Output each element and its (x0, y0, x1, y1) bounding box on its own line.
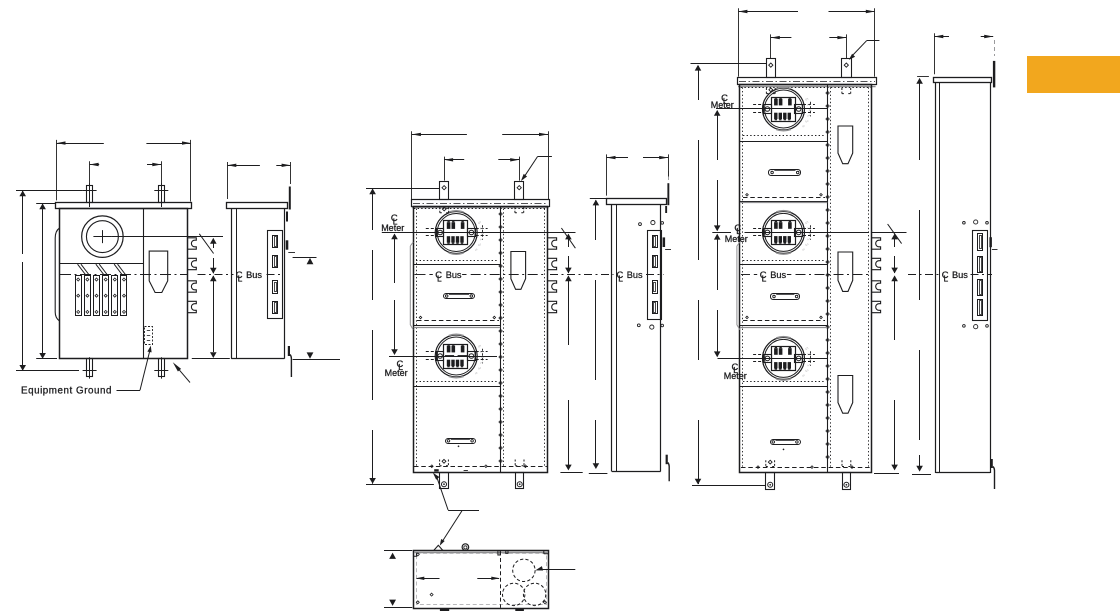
fig5 meter socket 3 (753, 337, 815, 380)
fig2 left wall (double) (232, 209, 237, 359)
svg-text:s: s (801, 374, 806, 378)
fig1 meter centerline (111, 236, 223, 238)
fig3 bottom dashed line (414, 465, 547, 471)
fig1 body height dimension (36, 203, 57, 358)
fig5 handle slot bottom comp (771, 440, 801, 451)
fig5 meter1-meter2 dimension (714, 110, 721, 231)
fig1 enclosure body (60, 209, 188, 359)
fig7 knockout circle top (513, 559, 535, 581)
fig4 bottom mounting lip (666, 455, 670, 482)
fig5 flange (738, 78, 877, 87)
svg-text:s: s (801, 248, 806, 252)
fig1 side knockouts (188, 238, 197, 313)
fig2 right reference ticks (293, 258, 340, 360)
fig3 meter1 centerline (382, 232, 576, 234)
fig2 depth dimension (227, 162, 290, 199)
fig5 divider (826, 85, 831, 473)
fig3 divider (499, 206, 504, 472)
fig6 bus slot panel (973, 231, 988, 321)
svg-text:5: 5 (804, 97, 810, 101)
fig5 meter1 centerline (716, 108, 828, 110)
equipment ground label (21, 385, 112, 396)
fig1 interior divider (143, 209, 145, 359)
fig6 top mounting lip (993, 40, 995, 87)
svg-text:Meter: Meter (725, 234, 748, 244)
fig3 meter socket 1 (426, 211, 488, 254)
fig3 handle slot bottom compartment (446, 439, 476, 447)
fig4 top mounting lip (665, 171, 669, 213)
fig3 separator below bus comp (413, 316, 500, 327)
fig4 left wall (double) (612, 205, 617, 472)
fig6 top cap (934, 78, 992, 83)
fig5 meter2 centerline (712, 232, 906, 234)
fig4 bus slot panel (648, 231, 662, 320)
svg-text:1: 1 (479, 361, 485, 365)
fig3 meter-to-meter dimension (391, 234, 398, 356)
svg-text:L: L (762, 273, 767, 283)
fig3 bottom-right mounting tab (516, 473, 524, 489)
fig3 separator below meter2 (413, 382, 500, 387)
fig3 dashed windows under flange (440, 207, 524, 213)
svg-text:L: L (944, 273, 949, 283)
fig2 bottom edge (231, 358, 284, 360)
svg-text:2: 2 (806, 352, 812, 356)
fig5 inner door dotted outline (741, 87, 871, 466)
fig5 overall height dimension (691, 64, 767, 486)
fig6 left wall (double) (936, 82, 940, 473)
svg-text:1: 1 (806, 237, 812, 241)
svg-text:Bus: Bus (246, 270, 262, 280)
fig1 meter center cross (93, 230, 111, 243)
svg-text:2: 2 (479, 226, 485, 230)
fig5 wire gutter cutout 2 (838, 252, 853, 291)
fig4 bottom edge (612, 471, 661, 473)
fig3 side knockouts (548, 238, 557, 313)
svg-text:5: 5 (477, 344, 483, 348)
fig7 depth dimension (384, 551, 412, 608)
equipment ground leader (117, 346, 152, 391)
fig6 bottom edge (936, 472, 991, 474)
svg-text:s: s (474, 248, 479, 252)
fig5 handle slot comp2 (769, 170, 801, 176)
fig4 right wall (660, 205, 662, 472)
fig7 top edge shading (414, 552, 548, 554)
fig1 top-right mounting stud (154, 183, 168, 207)
fig7 outline (414, 551, 549, 609)
svg-text:3: 3 (804, 119, 810, 123)
fig5 tab leader (849, 41, 880, 60)
fig3 top-left mounting tab (440, 182, 449, 200)
svg-text:2: 2 (806, 226, 812, 230)
fig7 knockout circle bottom-left (503, 583, 525, 605)
fig2 top cap (227, 203, 288, 209)
bus centerline fig4 (550, 274, 664, 276)
fig3 overall width dimension (412, 131, 549, 199)
fig5 separator below meter2 (740, 261, 828, 265)
fig7 ground lug on edge (434, 545, 443, 550)
fig5 dashed windows under flange (766, 88, 850, 94)
fig7 divider notch (498, 550, 508, 555)
fig5 bottom-right mounting tab (843, 473, 851, 490)
fig2 top mounting lip (286, 187, 291, 222)
fig2 mid mounting hook (286, 240, 295, 252)
svg-text:1: 1 (479, 237, 485, 241)
fig6 height dimension (912, 77, 931, 475)
fig7 corner notch left (413, 553, 416, 556)
fig1 bottom-right leader (173, 362, 190, 382)
fig1 enclosure flange (56, 203, 192, 209)
fig7 mounting feet (440, 609, 524, 611)
fig3 meter-to-bus and bus-to-bottom dimension (560, 228, 582, 473)
fig1 wire gutter cutout (149, 251, 168, 292)
svg-text:5: 5 (477, 221, 483, 225)
fig5 wire gutter cutout 1 (838, 126, 853, 164)
fig7 inner width arrows (416, 577, 500, 580)
orange banner top right (1027, 56, 1120, 93)
svg-text:Bus: Bus (952, 270, 968, 280)
fig5 left door jog (737, 242, 740, 330)
fig1 overall height dimension (stud to stud) (16, 191, 83, 371)
svg-text:2: 2 (479, 350, 485, 354)
fig3 inner door dotted outline (414, 209, 547, 466)
fig1 meter ring (82, 216, 124, 258)
fig5 meter3 centerline label (724, 361, 747, 381)
svg-text:3: 3 (477, 243, 483, 247)
fig7 corner notch right (544, 550, 549, 553)
fig2 bottom mounting lip (288, 346, 292, 377)
svg-text:Meter: Meter (724, 371, 747, 381)
fig5 meter2-meter3 dimension (714, 234, 721, 357)
svg-text:5: 5 (804, 221, 810, 225)
svg-text:Meter: Meter (385, 368, 408, 378)
fig7 knockout circle bottom-right (523, 583, 545, 605)
bus centerline label fig4 (617, 269, 644, 283)
fig1 vertical bus bars (76, 276, 127, 316)
fig3 meter socket 2 (426, 334, 488, 377)
svg-text:2: 2 (806, 103, 812, 107)
fig5 meter2 centerline label (725, 222, 748, 244)
fig5 meter1 centerline label (711, 92, 734, 110)
fig1 meter-to-bus dimension with break (192, 234, 230, 359)
fig1 stud spacing dimension (90, 161, 162, 183)
fig1 overall width dimension (57, 140, 192, 202)
fig7 conduit hub (462, 544, 469, 551)
svg-text:L: L (437, 273, 442, 283)
fig4 panel screw circles (637, 221, 663, 330)
fig5 bottom dashed line (741, 466, 871, 469)
fig1 left hinge bracket (55, 228, 59, 321)
fig3 bottom-left mounting tab (440, 473, 449, 489)
fig7 dashed divider (500, 551, 502, 607)
fig7 inner gasket dashed (417, 554, 547, 605)
svg-text:L: L (238, 273, 243, 283)
svg-text:5: 5 (804, 347, 810, 351)
svg-text:s: s (801, 124, 806, 128)
fig3 overall height dimension (366, 188, 440, 484)
fig1 equipment ground block (145, 327, 153, 345)
fig5 separator below meter3 (740, 382, 828, 387)
fig3 left door jog (410, 242, 413, 330)
fig1 bus connection straps (78, 264, 127, 275)
bus centerline between fig1 and fig2 (198, 274, 284, 276)
fig5 separator above meter2 (740, 194, 828, 203)
fig5 tab spacing dimension (771, 34, 847, 58)
fig5 dashed tab hints bottom (766, 460, 851, 466)
svg-text:3: 3 (804, 369, 810, 373)
svg-text:s: s (474, 371, 479, 375)
fig5 handle slot bus comp (771, 294, 800, 300)
fig6 bottom mounting lip (991, 459, 995, 489)
fig5 wire gutter cutout 3 (838, 376, 853, 414)
fig3 separator below meter1 (413, 261, 500, 265)
svg-text:1: 1 (806, 114, 812, 118)
bus centerline fig6 (908, 274, 992, 276)
bus centerline fig1 (60, 274, 187, 276)
fig4 height dimension (589, 199, 608, 474)
fig3 to bottom-view leader (440, 511, 462, 546)
fig3 tab spacing dimension (444, 157, 519, 181)
fig3 flange (412, 200, 550, 208)
svg-text:Bus: Bus (627, 270, 643, 280)
fig4 top cap (607, 199, 667, 205)
fig3 tab leader (521, 157, 552, 182)
fig5 body outline (740, 85, 872, 473)
fig3 ground lug leader (433, 473, 479, 511)
fig6 depth dimension (934, 33, 993, 74)
fig5 top-left mounting tab (767, 59, 776, 78)
fig3 dashed tab hints bottom (440, 459, 524, 465)
fig7 knockout leader (535, 566, 575, 570)
bus centerline label fig1-2 (236, 269, 263, 283)
fig1 bottom-right mounting stud (154, 357, 168, 378)
fig1 meter panel line (60, 263, 144, 265)
fig2 right wall (284, 209, 286, 359)
svg-text:Bus: Bus (446, 270, 462, 280)
fig6 panel screw circles (963, 220, 989, 329)
bus centerline fig5 (741, 274, 871, 276)
fig5 overall width dimension (738, 8, 874, 76)
fig4 mid mounting hook (663, 237, 671, 249)
bus centerline label fig3 (429, 269, 466, 283)
bus centerline label fig5 (754, 269, 792, 283)
fig5 side knockouts (872, 238, 881, 313)
fig2 bus slot panel (268, 231, 283, 319)
fig5 meter socket 1 (753, 87, 815, 130)
fig3 ground lug (434, 469, 439, 471)
fig5 bottom-left mounting tab (766, 473, 775, 490)
fig3 handle slot bus compartment (444, 294, 475, 299)
fig4 depth dimension (607, 154, 669, 195)
svg-text:1: 1 (806, 363, 812, 367)
svg-text:3: 3 (804, 243, 810, 247)
fig5 top-right mounting tab (842, 59, 852, 78)
svg-text:Equipment Ground: Equipment Ground (21, 385, 112, 396)
fig5 separator below meter1 (740, 136, 828, 142)
svg-text:Bus: Bus (770, 270, 786, 280)
fig1 bottom-left mounting stud (83, 357, 97, 378)
fig3 body outline (414, 207, 548, 473)
fig3 meter1 centerline label (381, 212, 404, 233)
bus centerline label fig6 (942, 269, 969, 283)
fig6 right wall (990, 82, 992, 473)
svg-text:Meter: Meter (381, 223, 404, 233)
fig3 meter2 centerline (389, 356, 497, 358)
fig5 meter socket 2 (753, 211, 815, 254)
fig3 meter2 centerline label (385, 358, 408, 378)
fig6 mid mounting hook (989, 237, 997, 249)
fig3 wire gutter cutout (511, 252, 526, 290)
fig3 top-right mounting tab (515, 182, 524, 200)
svg-text:L: L (618, 273, 623, 283)
svg-text:3: 3 (477, 366, 483, 370)
fig5 meter3 centerline (718, 358, 828, 360)
fig1 top-left mounting stud (83, 183, 97, 207)
fig7 corner diamonds (416, 553, 546, 604)
bus centerline fig3 (415, 274, 547, 276)
fig5 meter-to-bus and bus-to-bottom dimension (874, 224, 902, 474)
fig5 separator below bus comp (740, 316, 828, 327)
